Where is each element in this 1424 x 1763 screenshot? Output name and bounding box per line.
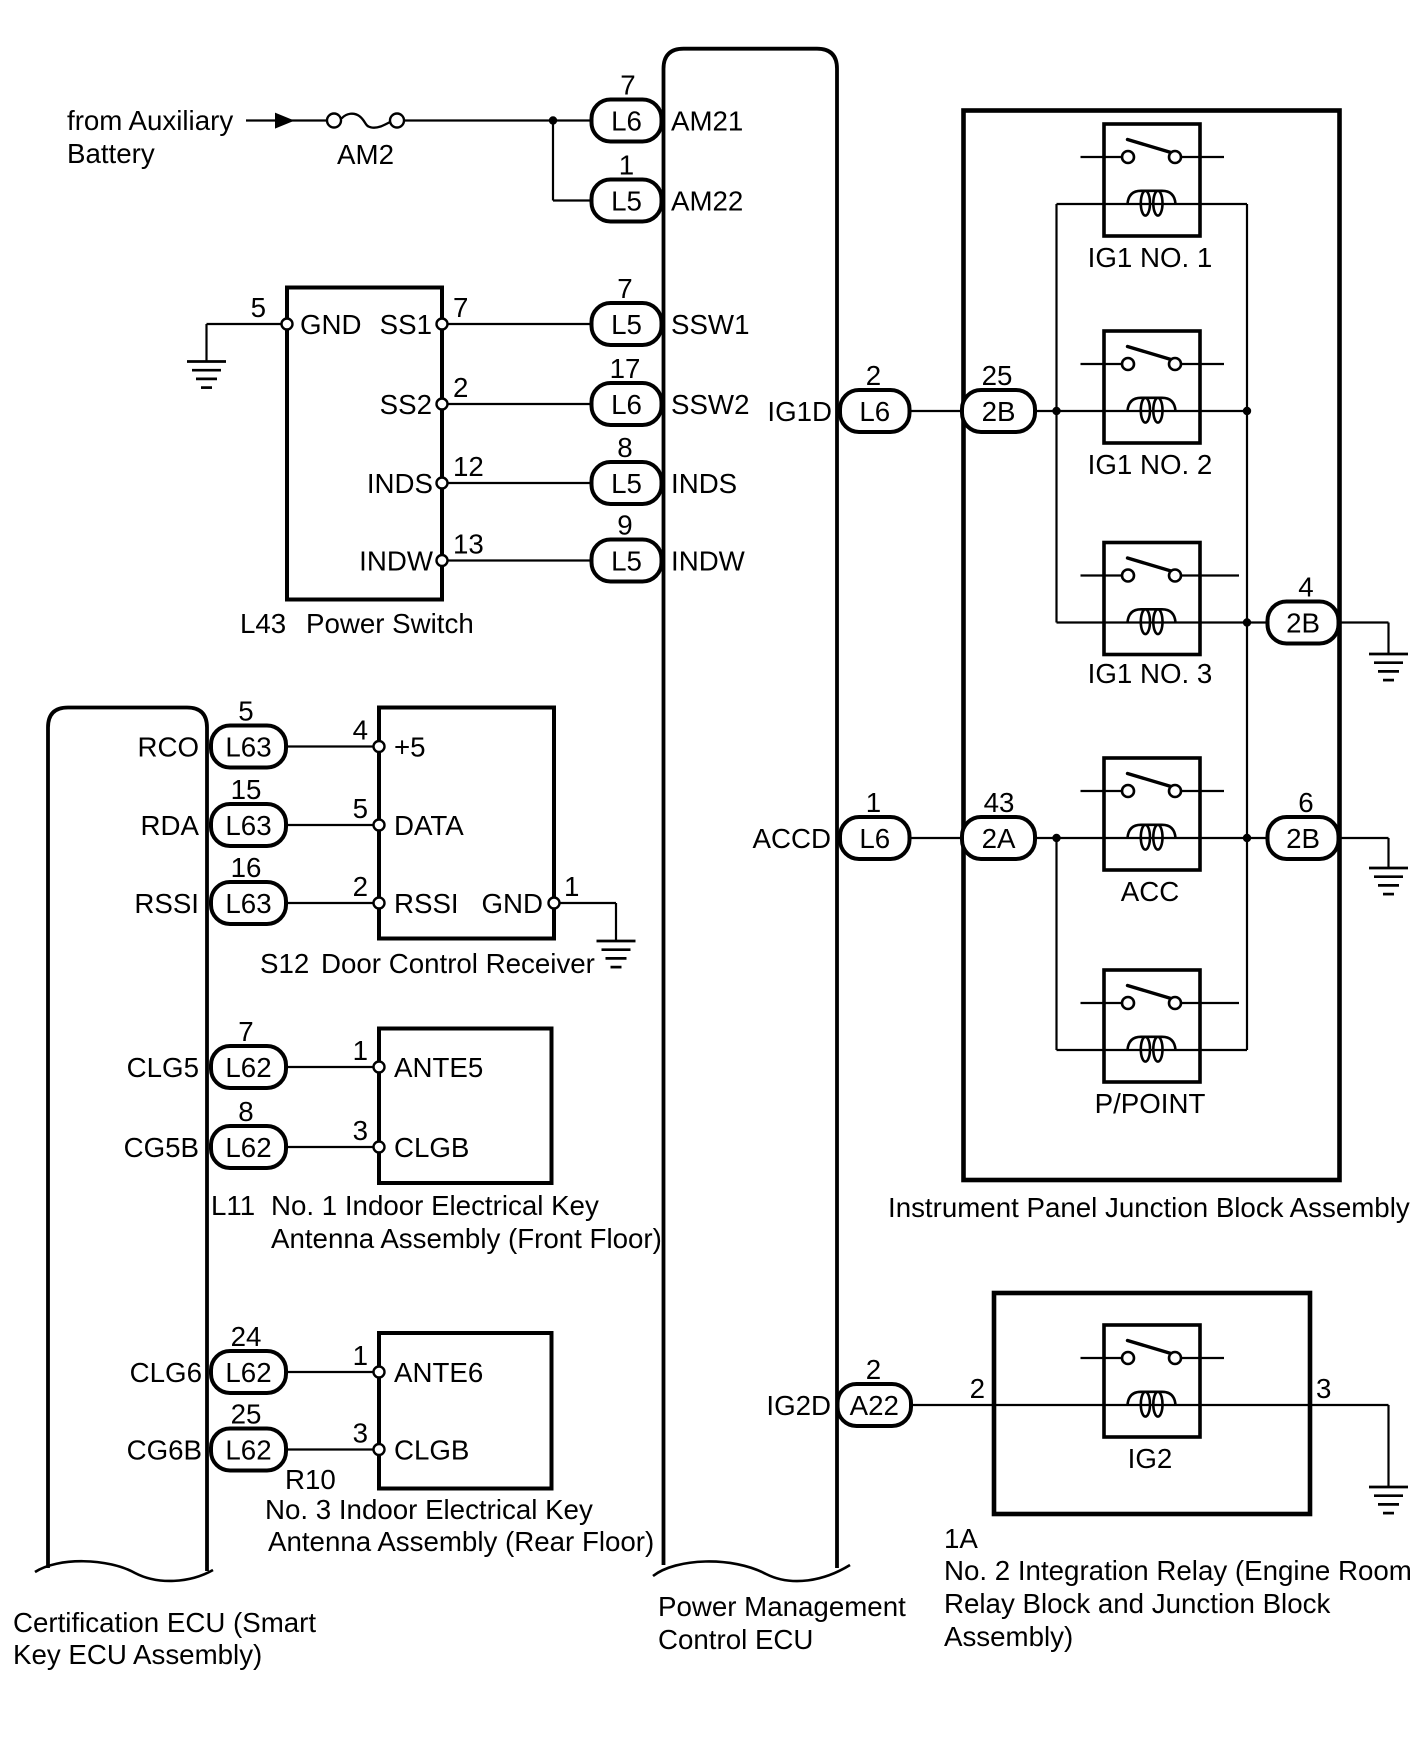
svg-text:A22: A22 [850, 1390, 899, 1421]
wire CG6B to CLGB [286, 1448, 379, 1450]
wire P/POINT coil feed [1057, 1049, 1176, 1051]
svg-text:1: 1 [564, 871, 579, 902]
svg-text:Instrument Panel Junction Bloc: Instrument Panel Junction Block Assembly [888, 1192, 1410, 1223]
connector oval L5 pin 9 (INDW) [592, 540, 662, 582]
box S12 Door Control Receiver [379, 708, 554, 939]
connector oval L62 pin 24 (CLG6) [211, 1351, 286, 1393]
wire RSSI to RSSI [286, 902, 379, 904]
svg-text:R10: R10 [285, 1464, 336, 1495]
wire IG1 NO. 3 coil to connector 2B pin 4 [1176, 621, 1389, 623]
wire RCO to +5 [286, 745, 379, 747]
pin circle power switch pin 7 SS1 [437, 319, 448, 330]
connector oval L62 pin 25 (CG6B) [211, 1429, 286, 1471]
svg-text:L6: L6 [611, 389, 642, 420]
svg-text:L62: L62 [225, 1132, 271, 1163]
wire from Auxiliary Battery to fuse AM2 [246, 119, 329, 121]
connector oval L6 pin 2 (IG1D) [840, 390, 910, 432]
svg-text:SS1: SS1 [380, 309, 432, 340]
ground symbol IG2 pin 3 [1369, 1487, 1408, 1513]
connector oval A22 pin 2 (IG2D) [838, 1384, 912, 1426]
wire IG1 NO. 1 coil return [1176, 203, 1248, 205]
svg-text:1: 1 [619, 150, 634, 181]
svg-text:+5: +5 [394, 732, 426, 763]
wire 2B pin 6 to ground [1387, 838, 1389, 868]
svg-text:2B: 2B [1286, 608, 1320, 639]
ground symbol ACC 2B pin 6 [1369, 868, 1408, 894]
svg-text:RCO: RCO [137, 732, 199, 763]
wire INDW to INDW [442, 559, 592, 561]
svg-text:SSW2: SSW2 [671, 389, 749, 420]
svg-text:25: 25 [982, 360, 1013, 391]
svg-text:1: 1 [353, 1035, 368, 1066]
svg-text:L63: L63 [225, 810, 271, 841]
relay P/POINT [1081, 970, 1240, 1082]
svg-text:Power Switch: Power Switch [306, 608, 474, 639]
wire CLG6 to ANTE6 [286, 1371, 379, 1373]
connector oval 2B pin 4 [1268, 602, 1339, 644]
connector oval L63 pin 15 (RDA) [211, 804, 286, 846]
ground symbol IG1 2B pin 4 [1369, 654, 1408, 680]
svg-text:2: 2 [866, 1354, 881, 1385]
fuse AM2 [327, 114, 404, 128]
svg-text:Assembly): Assembly) [944, 1621, 1073, 1652]
ECU box Power Management Control ECU [664, 49, 838, 1568]
node junction AM21/AM22 [549, 116, 557, 124]
svg-text:Relay Block and Junction Block: Relay Block and Junction Block [944, 1588, 1330, 1619]
svg-text:ACCD: ACCD [753, 823, 831, 854]
node IG1 NO. 3 coil rail right [1243, 618, 1251, 626]
connector oval L63 pin 16 (RSSI) [211, 882, 286, 924]
svg-text:L5: L5 [611, 186, 642, 217]
connector oval L63 pin 5 (RCO) [211, 726, 286, 768]
pin circle power switch pin 5 GND [282, 319, 293, 330]
wire IG1 coil rail left vertical [1055, 204, 1057, 623]
relay IG1 NO. 3 [1081, 543, 1240, 655]
wire IG1D net through 2B to IG1 relay coils [909, 410, 1247, 412]
pin circle antenna pin 1 ANTE6 [374, 1367, 385, 1378]
svg-text:L5: L5 [611, 309, 642, 340]
svg-text:IG1 NO. 2: IG1 NO. 2 [1088, 449, 1213, 480]
connector oval L6 pin 7 (AM21) [592, 100, 662, 142]
wire SS1 to SSW1 [442, 323, 592, 325]
svg-text:AM22: AM22 [671, 186, 743, 217]
box No. 2 Integration Relay [994, 1293, 1310, 1514]
svg-text:ACC: ACC [1121, 876, 1179, 907]
svg-text:Control ECU: Control ECU [658, 1624, 813, 1655]
svg-text:from Auxiliary: from Auxiliary [67, 105, 233, 136]
svg-text:15: 15 [231, 774, 262, 805]
wire power switch GND to ground [207, 323, 288, 325]
connector oval 2B pin 25 [962, 390, 1035, 432]
svg-text:25: 25 [231, 1399, 262, 1430]
wire fuse AM2 to node AM21 [404, 119, 592, 121]
svg-text:L5: L5 [611, 468, 642, 499]
svg-text:1: 1 [353, 1340, 368, 1371]
pin circle power switch pin 13 INDW [437, 555, 448, 566]
svg-text:L11: L11 [211, 1190, 255, 1221]
connector oval L62 pin 7 (CLG5) [211, 1046, 286, 1088]
svg-text:L43: L43 [240, 608, 286, 639]
relay IG1 NO. 1 [1081, 124, 1225, 236]
svg-text:7: 7 [617, 273, 632, 304]
wire ACCD net through 2A to ACC relay coil and 2B pin 6 [909, 837, 1389, 839]
pin circle antenna pin 1 ANTE5 [374, 1062, 385, 1073]
node IG1D coil rail right [1243, 407, 1251, 415]
svg-text:7: 7 [453, 292, 468, 323]
svg-text:L62: L62 [225, 1435, 271, 1466]
svg-text:2B: 2B [1286, 823, 1320, 854]
svg-text:ANTE5: ANTE5 [394, 1052, 483, 1083]
svg-text:1A: 1A [944, 1523, 978, 1554]
svg-text:INDS: INDS [367, 468, 433, 499]
pin circle power switch pin 12 INDS [437, 478, 448, 489]
wire SS2 to SSW2 [442, 403, 592, 405]
svg-text:GND: GND [481, 888, 543, 919]
svg-text:Antenna Assembly (Rear Floor): Antenna Assembly (Rear Floor) [268, 1526, 654, 1557]
svg-text:SS2: SS2 [380, 389, 432, 420]
svg-text:CG6B: CG6B [127, 1435, 202, 1466]
svg-text:L5: L5 [611, 546, 642, 577]
wire ACC rail left vertical to P/POINT coil [1055, 838, 1057, 1050]
svg-text:3: 3 [353, 1115, 368, 1146]
svg-text:INDW: INDW [359, 546, 434, 577]
connector oval L5 pin 8 (INDS) [592, 462, 662, 504]
svg-text:DATA: DATA [394, 810, 464, 841]
wire CLG5 to ANTE5 [286, 1066, 379, 1068]
svg-text:IG2: IG2 [1128, 1443, 1173, 1474]
svg-text:2: 2 [353, 871, 368, 902]
node ACCD coil rail right [1243, 834, 1251, 842]
svg-text:P/POINT: P/POINT [1095, 1088, 1206, 1119]
svg-text:IG1 NO. 3: IG1 NO. 3 [1088, 658, 1213, 689]
svg-text:7: 7 [620, 70, 635, 101]
svg-text:IG1 NO. 1: IG1 NO. 1 [1088, 242, 1213, 273]
svg-text:4: 4 [353, 715, 368, 746]
svg-text:AM21: AM21 [671, 106, 743, 137]
svg-text:GND: GND [300, 309, 362, 340]
svg-text:43: 43 [984, 787, 1015, 818]
connector oval L5 pin 1 (AM22) [592, 180, 662, 222]
svg-text:Certification ECU (Smart: Certification ECU (Smart [13, 1607, 316, 1638]
svg-text:17: 17 [610, 353, 641, 384]
svg-text:INDS: INDS [671, 468, 737, 499]
connector oval L6 pin 17 (SSW2) [592, 383, 662, 425]
svg-text:1: 1 [866, 787, 881, 818]
svg-text:Door Control Receiver: Door Control Receiver [321, 948, 595, 979]
svg-text:L62: L62 [225, 1052, 271, 1083]
svg-text:CLG5: CLG5 [127, 1052, 199, 1083]
svg-text:Antenna Assembly (Front Floor): Antenna Assembly (Front Floor) [271, 1223, 662, 1254]
svg-text:Key ECU Assembly): Key ECU Assembly) [13, 1639, 262, 1670]
svg-text:L63: L63 [225, 732, 271, 763]
connector oval L5 pin 7 (SSW1) [592, 303, 662, 345]
svg-text:4: 4 [1298, 572, 1313, 603]
ECU box Certification ECU [48, 708, 207, 1572]
connector oval L6 pin 1 (ACCD) [840, 817, 910, 859]
svg-text:No. 1 Indoor Electrical Key: No. 1 Indoor Electrical Key [271, 1190, 599, 1221]
svg-text:No. 3 Indoor Electrical Key: No. 3 Indoor Electrical Key [265, 1494, 593, 1525]
svg-text:2B: 2B [982, 396, 1016, 427]
node IG1D coil rail left [1052, 407, 1060, 415]
break line Certification ECU [35, 1561, 213, 1581]
connector oval 2A pin 43 [962, 817, 1035, 859]
svg-text:CLGB: CLGB [394, 1132, 469, 1163]
arrow power feed direction [275, 113, 295, 129]
ground symbol power switch GND [187, 362, 226, 388]
wire IG2D net through A22 to IG2 relay coil [911, 1404, 1389, 1406]
svg-text:CLG6: CLG6 [130, 1357, 202, 1388]
box L43 Power Switch [287, 288, 442, 600]
connector oval 2B pin 6 [1268, 817, 1339, 859]
svg-text:Battery: Battery [67, 138, 155, 169]
relay IG2 [1081, 1325, 1225, 1437]
ground symbol door control receiver GND [597, 941, 636, 967]
svg-text:3: 3 [353, 1418, 368, 1449]
svg-text:CLGB: CLGB [394, 1435, 469, 1466]
svg-text:IG1D: IG1D [767, 396, 832, 427]
pin circle power switch pin 2 SS2 [437, 399, 448, 410]
svg-text:9: 9 [617, 510, 632, 541]
svg-text:L6: L6 [859, 823, 890, 854]
break line Power Management Control ECU [653, 1561, 850, 1581]
wire P/POINT coil return [1176, 1049, 1248, 1051]
wire RDA to DATA [286, 824, 379, 826]
svg-text:CG5B: CG5B [124, 1132, 199, 1163]
svg-text:L62: L62 [225, 1357, 271, 1388]
pin circle receiver pin 4 +5 [374, 741, 385, 752]
pin circle antenna pin 3 CLGB [374, 1444, 385, 1455]
wire IG2 pin 3 to ground [1387, 1405, 1389, 1487]
wire IG1 NO. 1 coil feed [1057, 203, 1176, 205]
svg-text:L6: L6 [859, 396, 890, 427]
wire receiver GND to ground [554, 902, 616, 904]
connector oval L62 pin 8 (CG5B) [211, 1126, 286, 1168]
svg-text:AM2: AM2 [337, 139, 394, 170]
svg-text:Power Management: Power Management [658, 1591, 906, 1622]
svg-text:2: 2 [970, 1373, 985, 1404]
svg-text:S12: S12 [260, 948, 309, 979]
box R10 No. 3 Indoor Electrical Key Antenna Assembly [379, 1333, 552, 1489]
svg-text:RDA: RDA [141, 810, 200, 841]
box L11 No. 1 Indoor Electrical Key Antenna Assembly [379, 1029, 552, 1184]
pin circle receiver pin 1 GND [549, 898, 560, 909]
svg-text:8: 8 [238, 1096, 253, 1127]
svg-text:INDW: INDW [671, 546, 746, 577]
svg-text:RSSI: RSSI [394, 888, 459, 919]
svg-text:ANTE6: ANTE6 [394, 1357, 483, 1388]
wire INDS to INDS [442, 482, 592, 484]
svg-text:7: 7 [238, 1016, 253, 1047]
svg-text:2A: 2A [982, 823, 1016, 854]
wire IG1 NO. 3 coil feed [1057, 621, 1176, 623]
svg-text:L6: L6 [611, 106, 642, 137]
wire 2B pin 4 to ground [1387, 623, 1389, 655]
svg-text:5: 5 [238, 696, 253, 727]
wire CG5B to CLGB [286, 1146, 379, 1148]
svg-text:No. 2 Integration Relay (Engin: No. 2 Integration Relay (Engine Room [944, 1555, 1412, 1586]
svg-text:3: 3 [1316, 1373, 1331, 1404]
relay ACC [1081, 758, 1225, 870]
svg-text:8: 8 [617, 432, 632, 463]
wire IG1 coil rail right vertical [1246, 204, 1248, 1050]
box Instrument Panel Junction Block Assembly [964, 111, 1340, 1181]
svg-text:24: 24 [231, 1321, 262, 1352]
relay IG1 NO. 2 [1081, 331, 1225, 443]
svg-text:16: 16 [231, 852, 262, 883]
node ACCD coil rail left [1052, 834, 1060, 842]
svg-text:5: 5 [251, 292, 266, 323]
svg-text:RSSI: RSSI [134, 888, 199, 919]
svg-text:12: 12 [453, 451, 484, 482]
svg-text:2: 2 [453, 372, 468, 403]
svg-text:SSW1: SSW1 [671, 309, 749, 340]
pin circle receiver pin 2 RSSI [374, 898, 385, 909]
svg-text:2: 2 [866, 360, 881, 391]
svg-text:6: 6 [1298, 787, 1313, 818]
svg-text:13: 13 [453, 529, 484, 560]
pin circle receiver pin 5 DATA [374, 820, 385, 831]
wire node to connector AM22 [552, 121, 554, 201]
pin circle antenna pin 3 CLGB [374, 1142, 385, 1153]
svg-text:IG2D: IG2D [766, 1390, 831, 1421]
svg-text:5: 5 [353, 793, 368, 824]
svg-text:L63: L63 [225, 888, 271, 919]
